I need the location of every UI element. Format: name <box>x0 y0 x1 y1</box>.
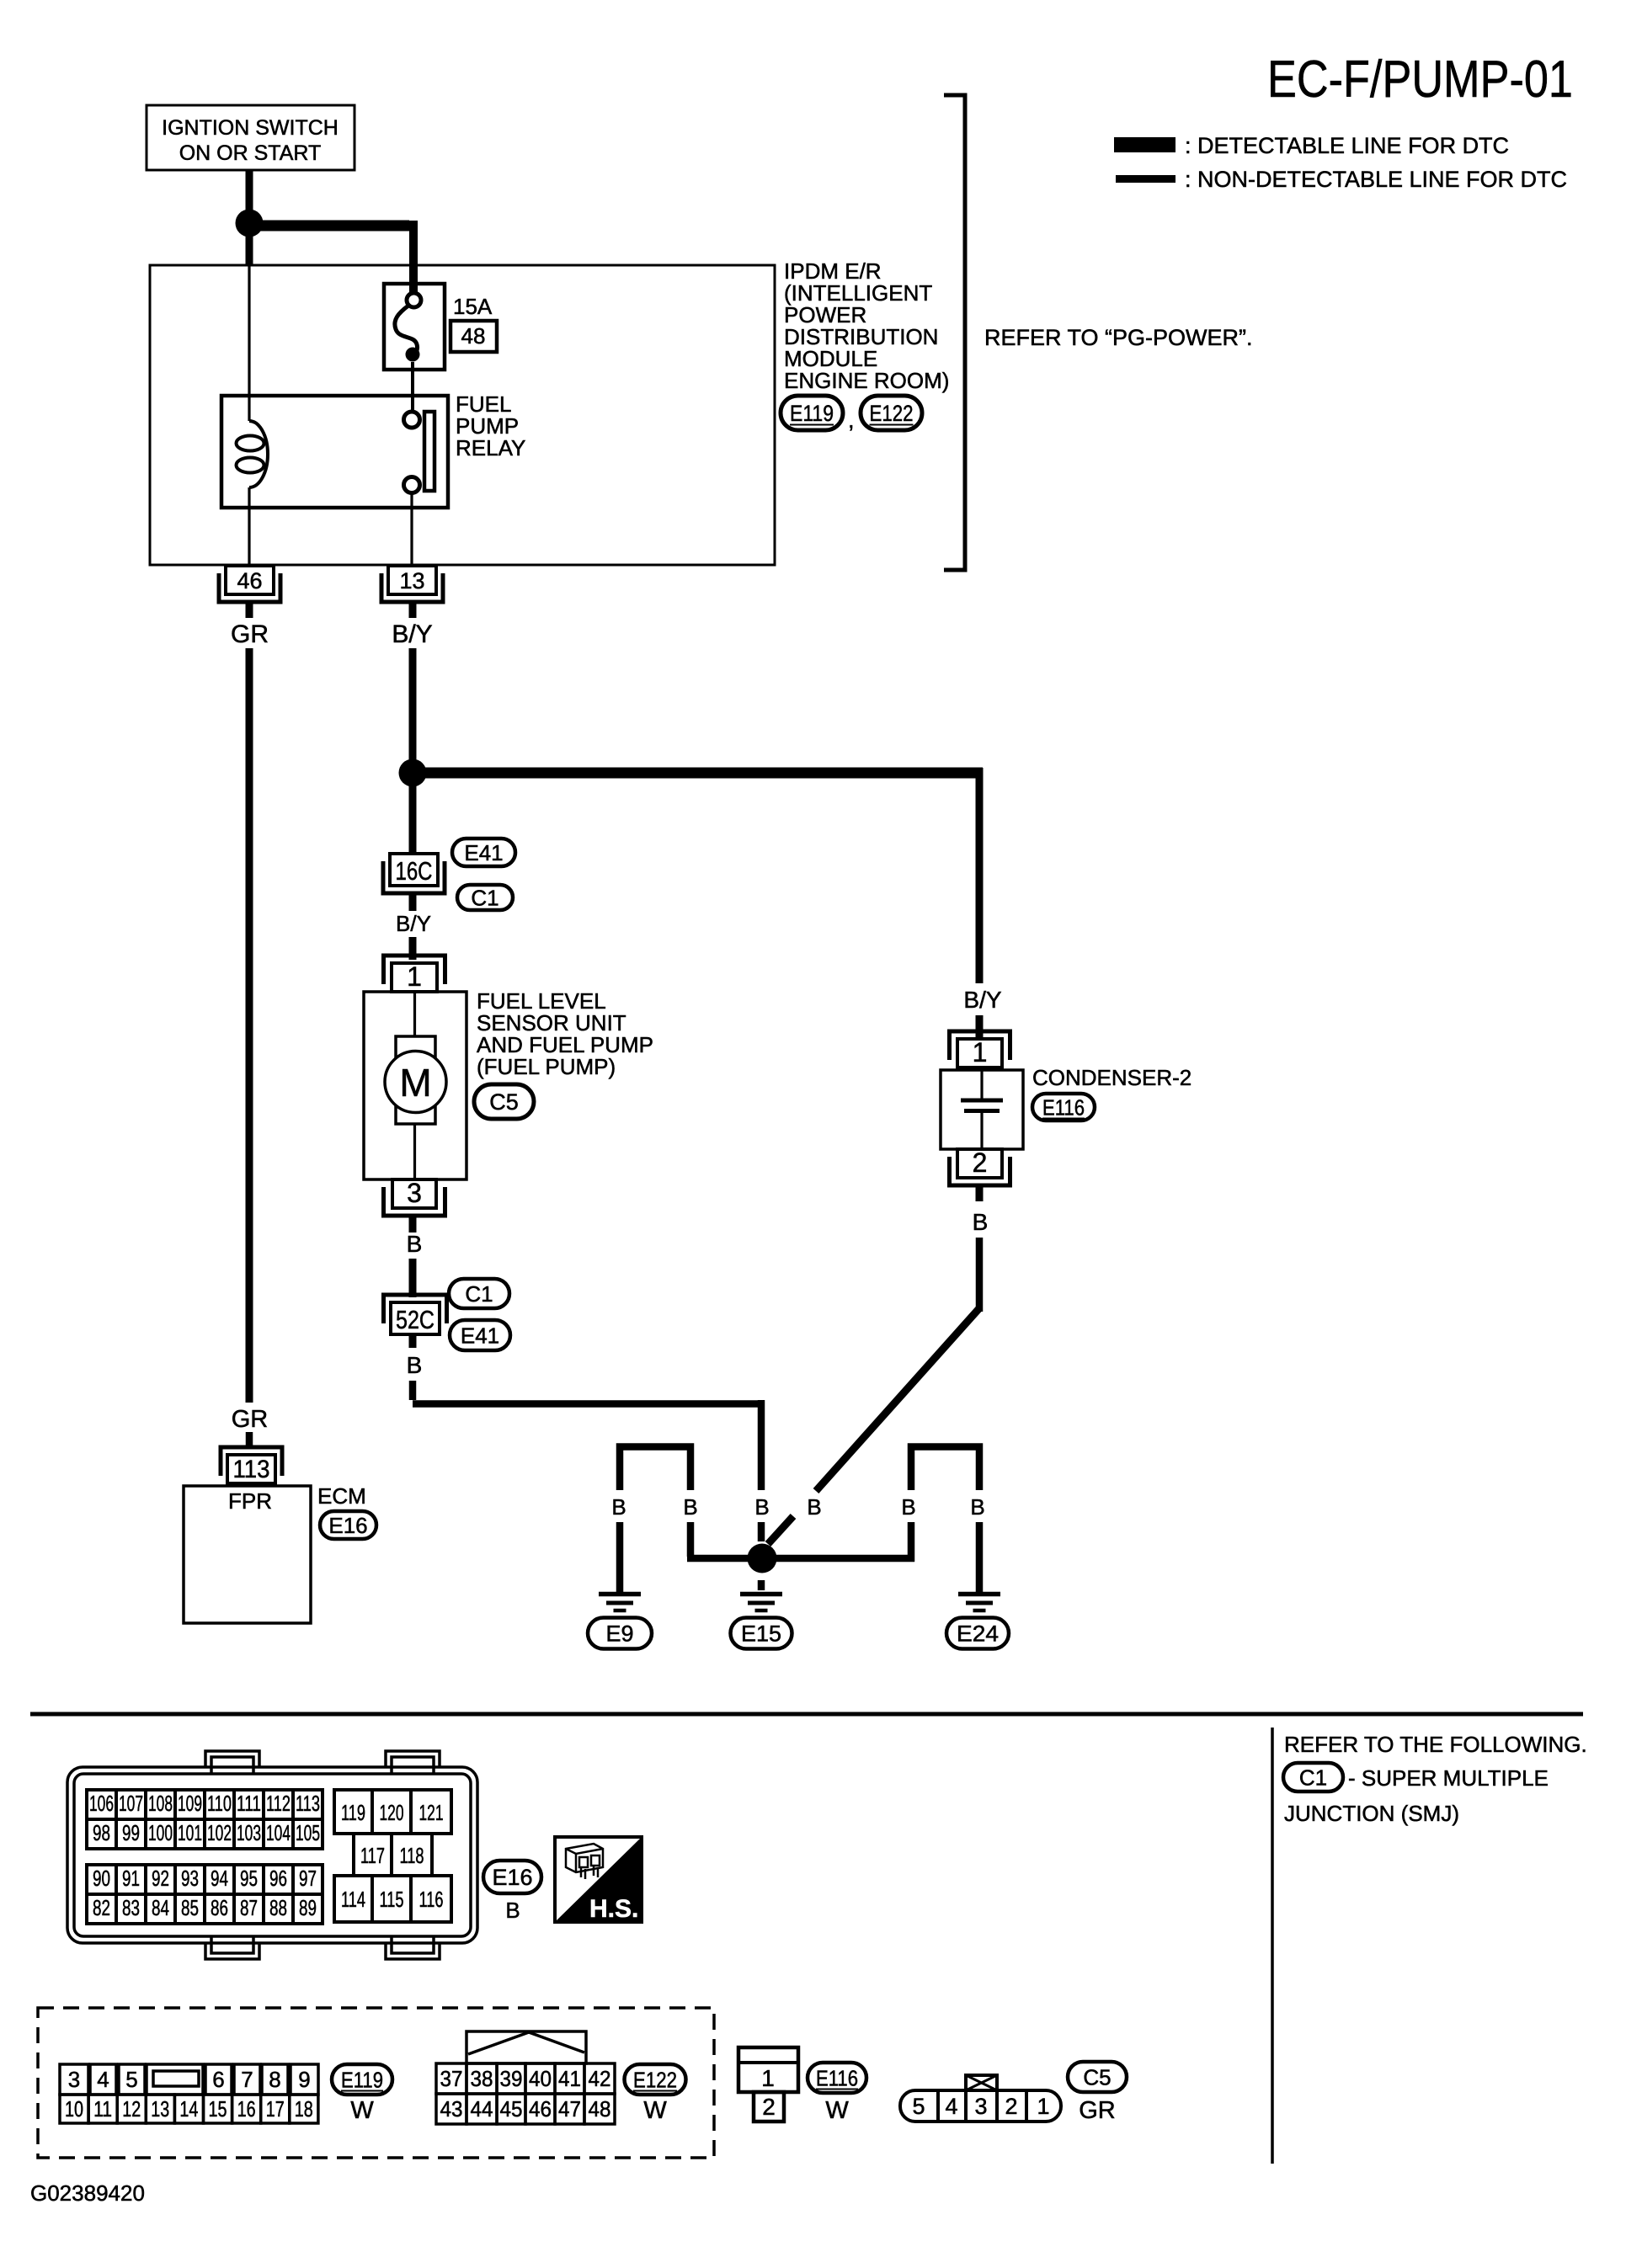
connector E16 outer shell <box>67 1767 477 1943</box>
svg-text:110: 110 <box>207 1791 232 1816</box>
fuse 15A symbol <box>395 293 421 362</box>
wire color B label E16 <box>505 1898 520 1923</box>
oval E15 <box>731 1618 792 1649</box>
svg-text:: NON-DETECTABLE LINE FOR DTC: : NON-DETECTABLE LINE FOR DTC <box>1185 167 1567 192</box>
svg-text:M: M <box>399 1061 431 1105</box>
vertical rule right column <box>1271 1728 1274 2164</box>
svg-text:113: 113 <box>233 1456 270 1483</box>
legend detectable line sample <box>1114 137 1176 152</box>
connector E16 pin grid upper-left <box>87 1790 323 1849</box>
svg-text:98: 98 <box>93 1820 110 1845</box>
svg-text:42: 42 <box>589 2066 611 2091</box>
wire color B/Y label 2 <box>396 911 431 936</box>
svg-text:44: 44 <box>471 2096 493 2122</box>
condenser-2 box <box>941 1070 1023 1149</box>
svg-text:5: 5 <box>125 2067 137 2092</box>
wire left U to bus <box>687 1522 695 1557</box>
svg-text:E9: E9 <box>605 1621 633 1647</box>
wire B/Y to condenser <box>976 773 984 983</box>
wire color B label pump <box>407 1231 423 1257</box>
wire color B label condenser <box>973 1209 989 1235</box>
wire color W label E116 <box>825 2097 849 2124</box>
svg-text:3: 3 <box>407 1178 422 1208</box>
svg-text:IGNTION SWITCH: IGNTION SWITCH <box>162 116 339 140</box>
svg-text:2: 2 <box>973 1147 988 1178</box>
connector pin 2 condenser <box>950 1147 1010 1185</box>
connector E16 top tabs <box>205 1751 440 1774</box>
relay contact circles <box>404 412 420 493</box>
connector E16 pin grid right block <box>334 1790 451 1922</box>
H.S. connector icon <box>566 1844 603 1879</box>
svg-text:H.S.: H.S. <box>589 1895 638 1923</box>
svg-text:,: , <box>848 407 855 433</box>
svg-text:GR: GR <box>232 1406 269 1433</box>
wire stub above 113 <box>246 1432 253 1448</box>
oval E119 <box>332 2064 392 2095</box>
svg-text:18: 18 <box>295 2096 313 2122</box>
svg-text:C5: C5 <box>1083 2064 1111 2090</box>
svg-text:12: 12 <box>122 2096 141 2122</box>
svg-text:47: 47 <box>558 2096 581 2122</box>
ECM label <box>317 1483 366 1509</box>
svg-text:48: 48 <box>589 2096 611 2122</box>
svg-text:JUNCTION (SMJ): JUNCTION (SMJ) <box>1284 1801 1459 1826</box>
svg-text:B: B <box>754 1494 769 1520</box>
svg-text:EC-F/PUMP-01: EC-F/PUMP-01 <box>1267 51 1573 109</box>
svg-text:1: 1 <box>761 2065 775 2091</box>
svg-text:16C: 16C <box>396 856 433 886</box>
svg-text:115: 115 <box>380 1887 404 1912</box>
svg-text:E119: E119 <box>790 401 834 426</box>
wire node to fuse branch <box>249 221 413 296</box>
wire E24 drop <box>976 1522 984 1593</box>
svg-text:2: 2 <box>762 2094 776 2120</box>
svg-text:107: 107 <box>119 1791 143 1816</box>
wire mid drop to node <box>758 1522 765 1541</box>
super multiple text <box>1348 1765 1549 1791</box>
svg-text:- SUPER MULTIPLE: - SUPER MULTIPLE <box>1348 1765 1549 1791</box>
oval E116 <box>808 2063 866 2093</box>
wire dash to E15 ground <box>758 1580 765 1590</box>
connector C5 with key <box>900 2075 1061 2122</box>
wire stub below 13 <box>409 603 417 618</box>
IPDM E/R box <box>150 265 775 565</box>
IPDM connector oval E119 <box>781 396 843 430</box>
dashed option box <box>38 2008 714 2158</box>
connector pin 13 <box>381 566 443 602</box>
svg-text:4: 4 <box>97 2067 109 2092</box>
connector E119 pin row 2 <box>60 2095 318 2123</box>
svg-text:1: 1 <box>1037 2094 1049 2119</box>
svg-text:45: 45 <box>500 2096 523 2122</box>
H.S. view block <box>555 1837 642 1923</box>
svg-text:39: 39 <box>500 2066 523 2091</box>
wire color B/Y label condenser <box>963 987 1001 1013</box>
wire relay contact to pin 13 <box>410 492 413 566</box>
legend non-detectable line sample <box>1116 175 1176 183</box>
svg-text:CONDENSER-2: CONDENSER-2 <box>1032 1065 1192 1090</box>
wire color B/Y label <box>392 620 432 648</box>
connector E119 pin row 1 <box>60 2064 318 2095</box>
svg-text:C1: C1 <box>1299 1765 1327 1790</box>
wire stub below condenser <box>976 1186 984 1201</box>
wire color B labels row <box>611 1494 984 1520</box>
svg-text:GR: GR <box>1079 2097 1116 2124</box>
wire B down to 52C <box>409 1259 417 1297</box>
oval E9 <box>588 1618 652 1649</box>
svg-text:84: 84 <box>152 1895 169 1920</box>
svg-text:100: 100 <box>148 1820 173 1845</box>
svg-text:B: B <box>901 1494 915 1520</box>
wire B from 52C to ground bus corner <box>413 1381 765 1490</box>
ground symbol E9 <box>599 1595 641 1611</box>
svg-text:B: B <box>611 1494 626 1520</box>
connector pin 3 fuel pump <box>384 1178 445 1216</box>
svg-text:41: 41 <box>558 2066 581 2091</box>
svg-text:109: 109 <box>178 1791 202 1816</box>
wire stub below pin 3 <box>409 1217 417 1232</box>
comma between ovals <box>848 407 855 433</box>
svg-text:8: 8 <box>269 2067 280 2092</box>
svg-text:B/Y: B/Y <box>963 987 1001 1013</box>
wire stub below 16C <box>409 893 417 911</box>
svg-text:92: 92 <box>152 1866 169 1891</box>
svg-text:85: 85 <box>181 1895 199 1920</box>
wire right U to bus <box>908 1522 915 1562</box>
svg-text:103: 103 <box>237 1820 261 1845</box>
fuse label 15A <box>453 294 493 319</box>
svg-text:3: 3 <box>974 2094 987 2119</box>
svg-text:121: 121 <box>419 1800 444 1825</box>
IPDM label text <box>784 258 949 393</box>
wire node down to relay coil branch <box>246 232 253 266</box>
figure number <box>30 2180 145 2206</box>
relay coil <box>237 421 269 487</box>
refer to the following text <box>1284 1732 1587 1757</box>
svg-text:94: 94 <box>211 1866 228 1891</box>
svg-text:: DETECTABLE LINE FOR DTC: : DETECTABLE LINE FOR DTC <box>1185 133 1509 158</box>
oval C5 <box>1068 2062 1127 2092</box>
wire color B label 52C <box>407 1352 423 1378</box>
svg-text:B: B <box>683 1494 697 1520</box>
svg-text:B: B <box>505 1898 520 1923</box>
ground symbol E15 <box>740 1595 782 1611</box>
oval E16 at ECM <box>320 1511 376 1539</box>
svg-text:101: 101 <box>178 1820 202 1845</box>
wire E9 drop <box>616 1522 624 1593</box>
svg-text:E15: E15 <box>741 1621 781 1647</box>
svg-text:10: 10 <box>65 2096 83 2122</box>
svg-text:9: 9 <box>298 2067 310 2092</box>
wire color W label E122 <box>643 2097 667 2124</box>
oval C1 at 52C <box>449 1279 509 1308</box>
svg-text:37: 37 <box>440 2066 463 2091</box>
svg-text:E24: E24 <box>957 1621 999 1647</box>
svg-text:111: 111 <box>237 1791 261 1816</box>
fuse 15A box <box>384 284 445 370</box>
condenser-2 label <box>1032 1065 1192 1090</box>
svg-text:B: B <box>807 1494 821 1520</box>
motor M circle <box>385 1051 446 1113</box>
svg-text:13: 13 <box>399 568 424 594</box>
svg-text:13: 13 <box>151 2096 169 2122</box>
svg-text:W: W <box>825 2097 849 2124</box>
svg-text:17: 17 <box>266 2096 285 2122</box>
fuse number 48 box <box>450 321 497 352</box>
svg-text:E16: E16 <box>328 1513 367 1538</box>
capacitor symbol <box>961 1070 1003 1149</box>
svg-text:7: 7 <box>241 2067 253 2092</box>
wire color GR label C5 <box>1079 2097 1116 2124</box>
svg-text:ENGINE ROOM): ENGINE ROOM) <box>784 368 949 393</box>
node junction dot 2 <box>399 759 427 787</box>
svg-text:88: 88 <box>269 1895 287 1920</box>
svg-text:86: 86 <box>211 1895 228 1920</box>
svg-text:1: 1 <box>407 961 422 992</box>
svg-text:E41: E41 <box>464 840 503 865</box>
svg-text:117: 117 <box>360 1843 385 1868</box>
svg-text:114: 114 <box>341 1887 365 1912</box>
wire B condenser diagonal to ground node <box>768 1238 979 1544</box>
ECM box <box>184 1486 311 1623</box>
motor commutator rect <box>396 1036 435 1124</box>
wire color GR label 2 <box>232 1406 269 1433</box>
svg-text:14: 14 <box>179 2096 198 2122</box>
svg-text:E119: E119 <box>341 2067 383 2092</box>
title EC-F/PUMP-01 <box>1267 51 1573 109</box>
node junction dot 1 <box>236 210 264 237</box>
svg-text:ECM: ECM <box>317 1483 366 1509</box>
svg-text:99: 99 <box>122 1820 140 1845</box>
svg-text:1: 1 <box>973 1037 988 1067</box>
svg-text:REFER TO THE FOLLOWING.: REFER TO THE FOLLOWING. <box>1284 1732 1587 1757</box>
svg-text:113: 113 <box>296 1791 320 1816</box>
svg-text:E41: E41 <box>461 1323 499 1348</box>
oval E41 at 52C <box>450 1320 510 1350</box>
wire fuse to relay contact <box>411 362 414 412</box>
connector 16C <box>383 854 445 893</box>
svg-text:ON OR START: ON OR START <box>179 141 322 165</box>
wire color GR label <box>231 620 269 648</box>
svg-text:95: 95 <box>240 1866 258 1891</box>
oval E122 <box>625 2064 686 2095</box>
svg-text:B: B <box>970 1494 984 1520</box>
connector E16 bottom tabs <box>205 1936 440 1959</box>
svg-text:120: 120 <box>380 1800 404 1825</box>
oval E24 <box>946 1618 1009 1649</box>
svg-text:GR: GR <box>231 620 269 648</box>
wire coil feed (thin) <box>248 266 250 421</box>
connector E122 hood <box>466 2031 586 2063</box>
svg-text:83: 83 <box>122 1895 140 1920</box>
wire junction to condenser branch <box>413 768 983 983</box>
wire stub below 52C <box>409 1334 417 1348</box>
wire ignition to node <box>246 170 253 212</box>
svg-text:15A: 15A <box>453 294 493 319</box>
svg-text:48: 48 <box>461 323 486 349</box>
svg-text:6: 6 <box>212 2067 224 2092</box>
svg-text:RELAY: RELAY <box>456 435 525 461</box>
relay label <box>456 391 525 461</box>
junction SMJ text <box>1284 1801 1459 1826</box>
svg-text:2: 2 <box>1005 2094 1017 2119</box>
wire ground U left upper <box>620 1447 690 1491</box>
fuel pump label text <box>477 988 653 1079</box>
IPDM connector oval E122 <box>861 396 922 430</box>
relay contact bar <box>424 412 434 491</box>
oval E16 big connector <box>483 1861 541 1893</box>
svg-text:90: 90 <box>93 1866 110 1891</box>
svg-text:W: W <box>643 2097 667 2124</box>
svg-text:102: 102 <box>207 1820 232 1845</box>
svg-text:16: 16 <box>237 2096 256 2122</box>
svg-text:91: 91 <box>122 1866 140 1891</box>
svg-text:C1: C1 <box>471 885 498 910</box>
wire color W label E119 <box>350 2097 374 2124</box>
svg-text:104: 104 <box>266 1820 291 1845</box>
wire inside pump top <box>413 992 416 1036</box>
node ground junction dot <box>748 1544 777 1573</box>
svg-text:E116: E116 <box>1042 1094 1085 1120</box>
wire B/Y down to junction <box>409 648 417 773</box>
svg-text:108: 108 <box>148 1791 173 1816</box>
text refer to PG-POWER <box>984 325 1253 350</box>
connector pin 1 condenser <box>950 1031 1010 1067</box>
oval E41 at 16C <box>452 839 515 866</box>
svg-text:112: 112 <box>266 1791 291 1816</box>
wire ground bus <box>687 1555 914 1563</box>
svg-text:105: 105 <box>296 1820 320 1845</box>
svg-text:4: 4 <box>945 2094 957 2119</box>
connector E16 pin grid lower-left <box>87 1865 323 1924</box>
svg-text:116: 116 <box>419 1887 444 1912</box>
svg-text:C5: C5 <box>489 1089 519 1115</box>
connector 52C <box>384 1295 447 1334</box>
svg-text:93: 93 <box>181 1866 199 1891</box>
oval C1 refer <box>1283 1763 1343 1792</box>
svg-text:B: B <box>973 1209 989 1235</box>
wire relay coil to pin 46 <box>248 487 250 566</box>
oval E116 at condenser <box>1032 1094 1095 1121</box>
bracket refer to PG-POWER <box>944 95 965 570</box>
svg-text:REFER TO “PG-POWER”.: REFER TO “PG-POWER”. <box>984 325 1253 350</box>
svg-text:E16: E16 <box>492 1865 532 1890</box>
oval C5 at fuel pump <box>474 1084 534 1119</box>
ignition switch box <box>147 105 355 170</box>
FPR label <box>228 1488 272 1514</box>
fuel pump relay box <box>221 396 448 508</box>
svg-text:106: 106 <box>89 1791 114 1816</box>
svg-text:82: 82 <box>93 1895 110 1920</box>
legend non-detectable text <box>1185 167 1567 192</box>
svg-text:G02389420: G02389420 <box>30 2180 145 2206</box>
wire B/Y label to condenser pin 1 <box>976 1015 984 1037</box>
wire junction down to 16C <box>409 773 417 854</box>
svg-text:(FUEL PUMP): (FUEL PUMP) <box>477 1054 616 1079</box>
svg-text:52C: 52C <box>396 1305 434 1334</box>
svg-text:B: B <box>407 1352 423 1378</box>
connector E116 body <box>738 2047 798 2122</box>
svg-text:B/Y: B/Y <box>392 620 432 648</box>
connector pin 1 fuel pump <box>384 956 445 992</box>
svg-text:FPR: FPR <box>228 1488 272 1514</box>
fuel level sensor unit box <box>364 992 466 1179</box>
separator line <box>30 1712 1583 1717</box>
svg-text:E116: E116 <box>816 2065 858 2090</box>
svg-text:46: 46 <box>529 2096 552 2122</box>
svg-text:15: 15 <box>209 2096 227 2122</box>
wire GR down to ECM <box>246 648 253 1403</box>
svg-text:43: 43 <box>440 2096 463 2122</box>
svg-text:87: 87 <box>240 1895 258 1920</box>
ground symbol E24 <box>958 1595 1000 1611</box>
wire B/Y to fuel pump pin 1 <box>409 937 417 960</box>
svg-text:118: 118 <box>400 1843 424 1868</box>
connector pin 46 <box>219 566 280 602</box>
svg-text:C1: C1 <box>465 1281 493 1307</box>
svg-text:W: W <box>350 2097 374 2124</box>
svg-text:89: 89 <box>299 1895 317 1920</box>
svg-text:3: 3 <box>68 2067 80 2092</box>
svg-text:E122: E122 <box>633 2067 677 2092</box>
svg-text:46: 46 <box>237 568 262 594</box>
svg-text:B: B <box>407 1231 423 1257</box>
svg-text:E122: E122 <box>870 401 914 426</box>
wire stub below 46 <box>246 603 253 618</box>
wire inside pump bottom <box>413 1124 416 1179</box>
connector E122 pin rows <box>436 2063 615 2124</box>
wire ground U right upper <box>911 1447 979 1491</box>
svg-text:40: 40 <box>529 2066 552 2091</box>
legend detectable text <box>1185 133 1509 158</box>
svg-text:97: 97 <box>299 1866 317 1891</box>
svg-text:5: 5 <box>912 2094 925 2119</box>
svg-text:11: 11 <box>93 2096 112 2122</box>
svg-text:38: 38 <box>471 2066 493 2091</box>
svg-text:B/Y: B/Y <box>396 911 431 936</box>
svg-text:119: 119 <box>341 1800 365 1825</box>
svg-text:96: 96 <box>269 1866 287 1891</box>
connector pin 113 ECM <box>221 1447 282 1483</box>
oval C1 at 16C <box>457 885 513 910</box>
